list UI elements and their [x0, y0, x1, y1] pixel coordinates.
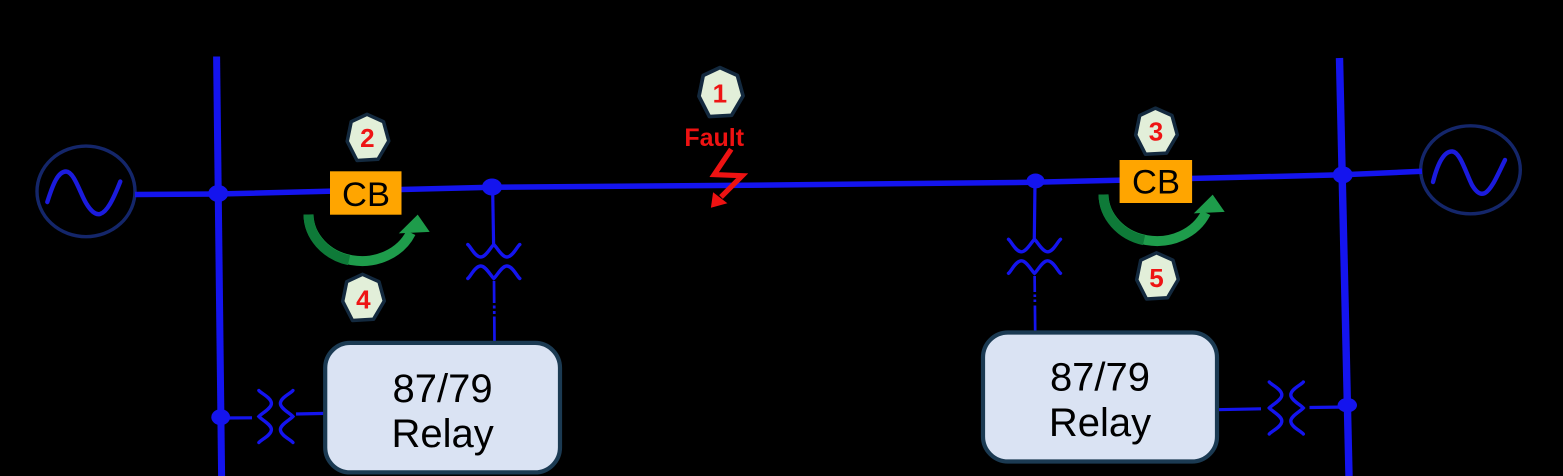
svg-text:5: 5 [1149, 263, 1163, 293]
svg-text:2: 2 [360, 123, 374, 153]
svg-text:4: 4 [356, 284, 371, 314]
svg-text:Fault: Fault [684, 124, 744, 152]
svg-text:87/79: 87/79 [393, 367, 493, 411]
svg-text:CB: CB [342, 176, 390, 214]
svg-text:CB: CB [1132, 164, 1180, 202]
svg-text:Relay: Relay [1049, 401, 1151, 445]
svg-text:Relay: Relay [391, 412, 493, 456]
svg-text:1: 1 [713, 78, 727, 108]
svg-text:87/79: 87/79 [1050, 356, 1150, 400]
svg-text:3: 3 [1149, 117, 1163, 147]
